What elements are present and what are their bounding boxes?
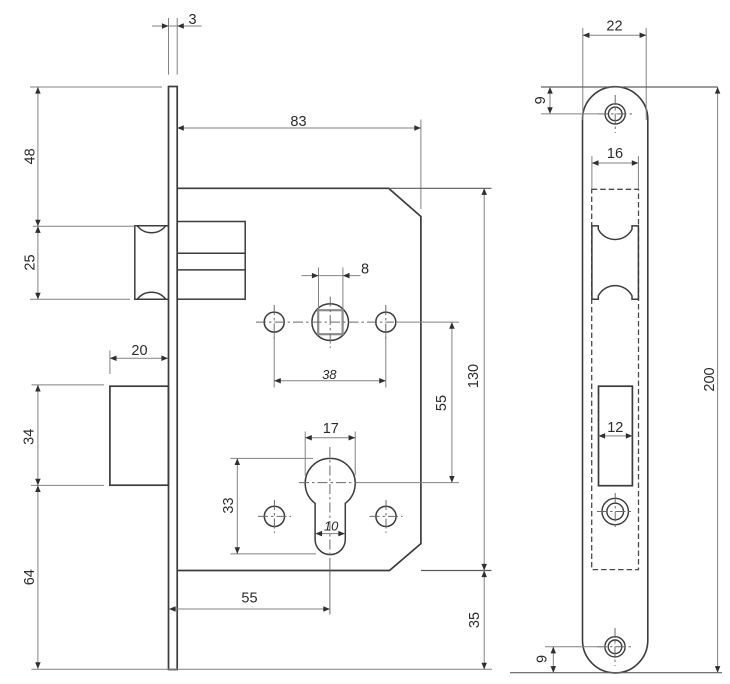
dim 200: dimension line <box>717 87 719 673</box>
dim 20: dimension line <box>110 357 168 359</box>
keyhole centerline extension down <box>329 558 331 615</box>
dim 8: extension lines <box>318 268 320 311</box>
centerline cyl screw left <box>258 515 291 517</box>
svg-text:9: 9 <box>533 96 549 104</box>
dim 34/64: extension lines <box>32 384 105 386</box>
svg-text:16: 16 <box>607 146 623 162</box>
dim 33: dimension line <box>236 458 238 554</box>
dim 55 bottom: dimension line <box>169 608 330 610</box>
dim 48/25: extension lines <box>30 86 162 88</box>
svg-text:38: 38 <box>322 367 337 382</box>
fixing hole left <box>264 312 284 332</box>
deadbolt (thrown, left of faceplate) <box>110 386 168 485</box>
fixing hole right <box>376 312 396 332</box>
svg-text:25: 25 <box>23 254 39 270</box>
middle screw hole <box>602 498 628 524</box>
dim 9 bottom: dimension line <box>552 647 554 673</box>
dim 9 top: center extension line <box>541 113 605 115</box>
centerline keyhole horizontal <box>299 482 358 484</box>
svg-text:48: 48 <box>23 148 39 164</box>
svg-text:55: 55 <box>241 590 257 606</box>
svg-text:55: 55 <box>434 395 450 411</box>
deadbolt cutout <box>599 386 633 486</box>
centerline middle screw <box>614 493 616 530</box>
dim 83: right extension line <box>420 120 422 210</box>
dim 34: dimension line <box>37 385 39 486</box>
centerline left hole vertical <box>273 305 275 339</box>
top tangent extension line <box>541 86 718 88</box>
dim 17: dimension line <box>305 437 355 439</box>
latch tail lines <box>177 252 245 254</box>
follower hole circle <box>312 304 349 341</box>
centerline keyhole vertical <box>329 447 331 558</box>
centerline bottom screw <box>614 628 616 666</box>
dim 22: extension lines <box>582 28 584 120</box>
svg-text:200: 200 <box>702 367 718 391</box>
latch bolt body (behind faceplate) <box>177 222 245 300</box>
dim 9 top: dimension line <box>549 87 551 114</box>
lock case outline with chamfered right corners <box>177 188 421 570</box>
centerline right hole vertical <box>385 305 387 339</box>
svg-text:20: 20 <box>131 343 147 359</box>
forend plate outline (stadium shape 22x200) <box>583 87 648 673</box>
svg-text:8: 8 <box>361 261 369 277</box>
svg-text:83: 83 <box>290 114 306 130</box>
latch cutout with bolt face arcs <box>592 226 639 299</box>
dim 33: extension lines <box>230 457 313 459</box>
centerline follower row horizontal <box>256 321 394 323</box>
dim 17: extension lines <box>304 432 306 476</box>
bottom screw hole <box>605 637 625 657</box>
latch bolt bevel head (left of faceplate) <box>135 226 169 299</box>
dim 12: dimension line <box>599 435 633 437</box>
dim 83: dimension line <box>177 127 421 129</box>
dim 16: extension lines <box>591 156 593 189</box>
dim 20: extension line <box>109 351 111 375</box>
follower square (8mm spindle) <box>318 310 342 334</box>
svg-text:3: 3 <box>188 12 196 28</box>
dim 48/25: dimension line <box>37 87 39 299</box>
dim 10: dimension line <box>316 533 345 535</box>
dim 9 bottom: center extension line <box>545 646 605 648</box>
bottom tangent extension line <box>510 672 722 674</box>
svg-text:9: 9 <box>535 655 551 663</box>
cylinder screw hole right <box>376 506 396 526</box>
svg-text:35: 35 <box>467 612 483 628</box>
dim 130: top extension line <box>389 187 491 189</box>
dim 130/35: mid extension line <box>421 570 491 572</box>
dim 3: dimension line <box>152 25 202 27</box>
dim 55 vert: dimension line <box>451 322 453 483</box>
svg-text:22: 22 <box>606 18 622 34</box>
dim 130: dimension line <box>483 188 485 570</box>
dim 38: dimension line <box>274 380 386 382</box>
cylinder screw hole left <box>264 506 284 526</box>
dim 8: dimension line <box>302 275 361 277</box>
svg-text:64: 64 <box>22 569 38 585</box>
dim 38: extension lines <box>273 333 275 388</box>
svg-text:17: 17 <box>323 421 339 437</box>
dim 22: dimension line <box>583 34 646 36</box>
top screw hole <box>605 104 625 124</box>
faceplate (side view, 3mm thick) <box>169 87 178 670</box>
svg-text:33: 33 <box>221 497 237 513</box>
dim 55 vert: extension lines <box>396 321 459 323</box>
dim 35: dimension line <box>483 571 485 670</box>
svg-text:10: 10 <box>324 519 339 534</box>
centerline follower vertical <box>329 297 331 349</box>
hidden case outline (dashed) <box>592 189 639 569</box>
svg-text:34: 34 <box>21 429 37 445</box>
dim 16: dimension line <box>592 162 639 164</box>
bottom baseline extension <box>31 668 492 670</box>
svg-text:12: 12 <box>607 420 623 436</box>
dim 64: dimension line <box>37 485 39 668</box>
dim 3: extension lines above faceplate <box>168 18 170 75</box>
svg-text:130: 130 <box>466 364 482 388</box>
centerline top screw <box>614 95 616 133</box>
centerline cyl screw right <box>370 515 403 517</box>
euro cylinder keyhole <box>305 458 355 554</box>
